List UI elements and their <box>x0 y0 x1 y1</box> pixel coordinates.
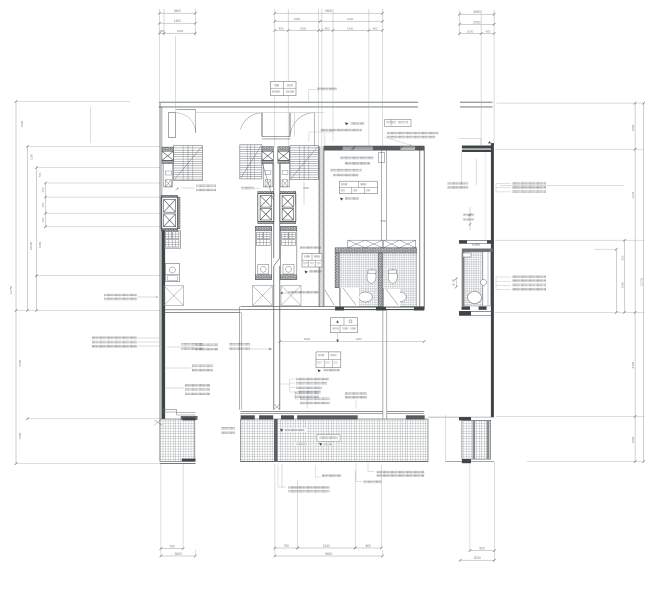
svg-text:4480: 4480 <box>38 241 42 248</box>
svg-text:450: 450 <box>41 217 45 222</box>
svg-text:1500: 1500 <box>20 120 24 127</box>
svg-text:9600: 9600 <box>325 552 332 556</box>
svg-text:700: 700 <box>38 172 42 177</box>
svg-text:900: 900 <box>479 547 485 551</box>
svg-text:1500: 1500 <box>631 124 635 131</box>
svg-text:900: 900 <box>621 255 625 260</box>
svg-text:1500: 1500 <box>631 436 635 443</box>
svg-text:450: 450 <box>279 26 284 30</box>
svg-text:8400: 8400 <box>631 361 635 368</box>
svg-text:1100: 1100 <box>30 154 34 160</box>
svg-text:3600: 3600 <box>174 9 181 13</box>
svg-text:2030: 2030 <box>474 556 481 560</box>
svg-text:1030: 1030 <box>467 30 474 34</box>
svg-text:1050: 1050 <box>177 29 184 33</box>
svg-text:1500: 1500 <box>18 432 22 439</box>
svg-text:450: 450 <box>41 202 45 207</box>
svg-text:2550: 2550 <box>303 186 309 190</box>
svg-text:13736: 13736 <box>640 277 644 286</box>
svg-text:3600: 3600 <box>175 552 182 556</box>
svg-text:13750: 13750 <box>9 285 13 294</box>
svg-text:2030: 2030 <box>473 20 480 24</box>
svg-text:1500: 1500 <box>174 19 181 23</box>
svg-text:3650: 3650 <box>473 10 480 14</box>
svg-text:1500: 1500 <box>294 17 301 21</box>
svg-text:450: 450 <box>325 26 330 30</box>
svg-text:2100: 2100 <box>323 544 330 548</box>
svg-text:8400: 8400 <box>18 359 22 366</box>
svg-text:1400: 1400 <box>355 337 362 341</box>
svg-text:3000: 3000 <box>304 337 311 341</box>
svg-text:750: 750 <box>169 545 175 549</box>
svg-text:750: 750 <box>284 544 290 548</box>
svg-text:7050: 7050 <box>380 219 386 223</box>
svg-text:10500: 10500 <box>29 241 33 250</box>
svg-text:450: 450 <box>373 26 378 30</box>
svg-text:2100: 2100 <box>347 17 354 21</box>
svg-text:3136: 3136 <box>631 191 635 198</box>
svg-text:450: 450 <box>486 30 491 34</box>
svg-text:800: 800 <box>366 544 372 548</box>
svg-text:1050: 1050 <box>300 26 307 30</box>
svg-text:9600: 9600 <box>325 9 332 13</box>
svg-text:1200: 1200 <box>347 26 354 30</box>
svg-text:600: 600 <box>41 187 45 192</box>
svg-text:2400: 2400 <box>621 281 625 288</box>
